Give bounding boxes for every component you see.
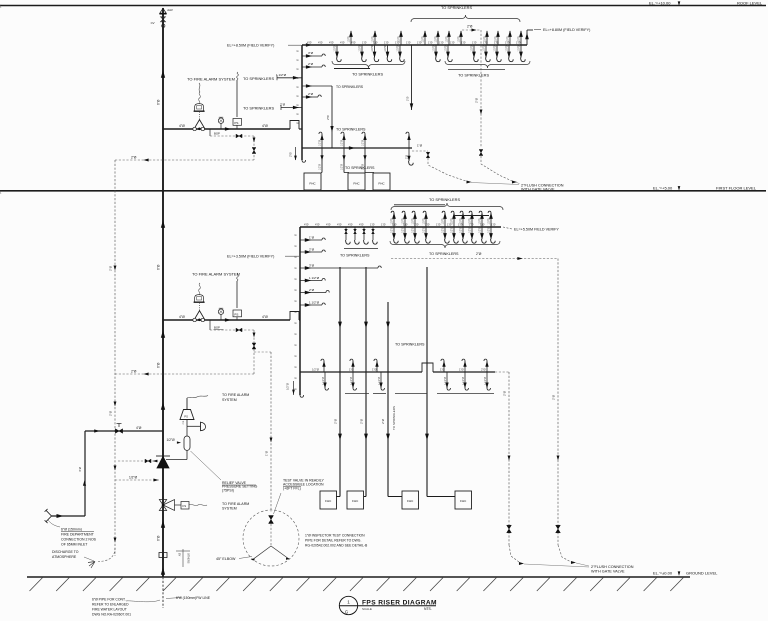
svg-text:2"Ø: 2"Ø [475, 97, 479, 103]
svg-text:1/2"Ø: 1/2"Ø [494, 45, 497, 51]
svg-text:1 1/2"Ø: 1 1/2"Ø [309, 276, 320, 280]
svg-text:1/2"Ø: 1/2"Ø [445, 45, 448, 51]
svg-text:1/2"Ø: 1/2"Ø [460, 218, 463, 224]
svg-text:1/2"Ø: 1/2"Ø [348, 36, 351, 42]
svg-text:2"Ø: 2"Ø [360, 418, 364, 424]
svg-text:45° ELBOW: 45° ELBOW [216, 557, 236, 561]
svg-text:1/2"Ø: 1/2"Ø [451, 227, 454, 233]
svg-text:Ø: Ø [296, 278, 298, 280]
svg-text:NTS.: NTS. [424, 607, 432, 611]
svg-text:6"Ø: 6"Ø [157, 264, 161, 270]
svg-text:1 1/2"Ø: 1 1/2"Ø [276, 73, 287, 77]
svg-text:4"Ø: 4"Ø [136, 426, 142, 430]
svg-text:ATMOSPHERE: ATMOSPHERE [52, 555, 77, 559]
svg-text:SYSTEM: SYSTEM [222, 398, 237, 402]
svg-text:1/2"Ø: 1/2"Ø [167, 438, 176, 442]
svg-text:2"Ø: 2"Ø [552, 394, 556, 400]
svg-text:Ø: Ø [298, 68, 300, 70]
svg-text:6"Ø (150mm)FW LINE: 6"Ø (150mm)FW LINE [176, 596, 211, 600]
svg-text:1/2"Ø: 1/2"Ø [391, 227, 394, 233]
svg-text:1"Ø: 1"Ø [384, 41, 388, 45]
svg-text:1"Ø: 1"Ø [372, 367, 377, 371]
svg-text:REFER TO ENLARGED: REFER TO ENLARGED [92, 603, 129, 607]
svg-text:G: G [345, 609, 348, 614]
svg-text:1/2"Ø: 1/2"Ø [341, 140, 344, 146]
svg-text:TO SPRINKLERS: TO SPRINKLERS [336, 85, 364, 89]
svg-text:Ø: Ø [296, 267, 298, 269]
svg-text:4"Ø: 4"Ø [262, 124, 268, 128]
svg-text:FHC: FHC [353, 182, 360, 186]
svg-text:FHC: FHC [378, 182, 385, 186]
svg-text:SCALE: SCALE [362, 607, 372, 611]
svg-text:TO SPRINKLERS: TO SPRINKLERS [392, 406, 396, 430]
svg-text:TO SPRINKLERS: TO SPRINKLERS [395, 343, 425, 347]
svg-text:CONNECTION 2 NOS: CONNECTION 2 NOS [61, 538, 97, 542]
svg-text:4"Ø: 4"Ø [351, 41, 355, 45]
svg-text:GROUND LEVEL: GROUND LEVEL [686, 571, 718, 576]
svg-text:Ø: Ø [298, 113, 300, 115]
svg-text:Ø: Ø [298, 104, 300, 106]
svg-text:6"Ø (150mm): 6"Ø (150mm) [61, 527, 82, 531]
svg-text:2"Ø: 2"Ø [308, 92, 314, 96]
svg-text:1/2"Ø: 1/2"Ø [488, 218, 491, 224]
svg-text:1 1/2"Ø: 1 1/2"Ø [484, 377, 487, 385]
svg-text:1"Ø: 1"Ø [472, 41, 476, 45]
svg-text:2"Ø: 2"Ø [476, 252, 482, 256]
svg-text:TO FIRE ALARM SYSTEM: TO FIRE ALARM SYSTEM [187, 77, 235, 82]
svg-text:Ø: Ø [298, 95, 300, 97]
svg-text:1/2"Ø: 1/2"Ø [412, 218, 415, 224]
svg-text:TO SPRINKLERS: TO SPRINKLERS [336, 128, 366, 132]
svg-text:1/2"Ø: 1/2"Ø [495, 36, 498, 42]
svg-text:1/2"Ø: 1/2"Ø [319, 164, 322, 170]
svg-text:1/2"Ø: 1/2"Ø [518, 36, 521, 42]
svg-text:1/2"Ø: 1/2"Ø [384, 45, 387, 51]
svg-text:1"Ø: 1"Ø [362, 41, 366, 45]
svg-text:Ø: Ø [298, 59, 300, 61]
svg-text:FIRST FLOOR LEVEL: FIRST FLOOR LEVEL [716, 185, 757, 190]
svg-text:TO SPRINKLERS: TO SPRINKLERS [352, 72, 383, 77]
svg-text:1"Ø: 1"Ø [349, 367, 354, 371]
svg-text:EL=+8.80M (FIELD VERIFY): EL=+8.80M (FIELD VERIFY) [543, 28, 590, 32]
svg-text:FHC: FHC [325, 499, 332, 503]
svg-text:ROOF LEVEL: ROOF LEVEL [737, 1, 763, 6]
svg-text:2"Ø: 2"Ø [334, 418, 338, 424]
svg-text:4"Ø: 4"Ø [179, 124, 185, 128]
svg-text:4"Ø: 4"Ø [340, 41, 344, 45]
svg-text:1/2"Ø: 1/2"Ø [483, 45, 486, 51]
svg-text:1/2"Ø: 1/2"Ø [446, 36, 449, 42]
svg-text:Ø: Ø [296, 388, 298, 390]
svg-text:1"Ø: 1"Ø [381, 223, 385, 227]
svg-text:EL=+3.50M (FIELD VERIFY): EL=+3.50M (FIELD VERIFY) [227, 254, 274, 258]
svg-text:(+6FT FFL): (+6FT FFL) [283, 487, 301, 491]
svg-text:TO FIRE ALARM: TO FIRE ALARM [222, 393, 249, 397]
svg-text:1/2"Ø: 1/2"Ø [359, 45, 362, 51]
svg-text:1/2"Ø: 1/2"Ø [286, 383, 290, 390]
svg-text:1/2"Ø: 1/2"Ø [423, 227, 426, 233]
svg-text:1/2"Ø: 1/2"Ø [471, 45, 474, 51]
svg-text:Ø: Ø [296, 234, 298, 236]
svg-text:Ø: Ø [298, 122, 300, 124]
svg-text:Ø: Ø [296, 289, 298, 291]
svg-text:4"Ø: 4"Ø [337, 223, 341, 227]
svg-text:2"Ø: 2"Ø [503, 390, 507, 396]
svg-text:Ø: Ø [296, 377, 298, 379]
svg-text:6"Ø: 6"Ø [157, 362, 161, 368]
svg-text:1"Ø: 1"Ø [265, 450, 269, 456]
svg-text:Ø: Ø [296, 300, 298, 302]
svg-text:4"Ø: 4"Ø [179, 315, 185, 319]
svg-text:1/2"Ø: 1/2"Ø [479, 227, 482, 233]
svg-text:Ø: Ø [296, 245, 298, 247]
svg-text:1/2"Ø: 1/2"Ø [397, 45, 400, 51]
svg-text:1/2"Ø: 1/2"Ø [518, 45, 521, 51]
svg-text:1/2"Ø: 1/2"Ø [479, 218, 482, 224]
svg-text:1/2"Ø: 1/2"Ø [435, 36, 438, 42]
svg-text:1/2"Ø: 1/2"Ø [391, 218, 394, 224]
svg-text:SYSTEM: SYSTEM [222, 507, 237, 511]
svg-text:CV: CV [151, 21, 155, 25]
svg-text:FPS RISER DIAGRAM: FPS RISER DIAGRAM [362, 599, 437, 606]
svg-text:2"Ø: 2"Ø [326, 114, 330, 120]
svg-text:2"Ø: 2"Ø [289, 151, 293, 157]
svg-text:4"Ø: 4"Ø [329, 41, 333, 45]
svg-text:FHC: FHC [309, 182, 316, 186]
svg-text:1/2"Ø: 1/2"Ø [442, 227, 445, 233]
svg-text:BOP: BOP [214, 326, 220, 330]
svg-text:4"Ø: 4"Ø [315, 223, 319, 227]
svg-text:PS: PS [234, 121, 238, 125]
svg-text:2"Ø: 2"Ø [381, 418, 385, 424]
svg-text:TO SPRINKLERS: TO SPRINKLERS [429, 197, 460, 202]
svg-text:FIRE WATER LAYOUT: FIRE WATER LAYOUT [92, 608, 127, 612]
svg-text:2"FLUSH CONNECTION: 2"FLUSH CONNECTION [591, 565, 634, 569]
svg-text:2"Ø: 2"Ø [481, 367, 486, 371]
svg-text:Ø: Ø [298, 86, 300, 88]
svg-text:1/2"Ø: 1/2"Ø [469, 227, 472, 233]
svg-text:2"Ø: 2"Ø [183, 421, 185, 425]
svg-text:Ø: Ø [296, 355, 298, 357]
svg-text:6"Ø: 6"Ø [157, 99, 161, 105]
svg-text:TO SPRINKLERS: TO SPRINKLERS [340, 253, 370, 257]
svg-text:1/2"Ø: 1/2"Ø [129, 475, 138, 479]
svg-text:1/2"Ø: 1/2"Ø [507, 36, 510, 42]
svg-text:1/2"Ø: 1/2"Ø [484, 36, 487, 42]
svg-text:Ø: Ø [298, 77, 300, 79]
svg-text:1/2"Ø: 1/2"Ø [458, 36, 461, 42]
svg-text:1"Ø: 1"Ø [440, 367, 445, 371]
svg-text:3"Ø: 3"Ø [308, 51, 314, 55]
svg-text:PIPE FOR DETAIL REFER TO DWG.: PIPE FOR DETAIL REFER TO DWG. [305, 539, 361, 543]
svg-text:3"Ø: 3"Ø [309, 263, 315, 267]
svg-text:1"Ø: 1"Ø [450, 41, 454, 45]
svg-text:PS: PS [234, 312, 238, 316]
svg-text:2"Ø: 2"Ø [131, 155, 137, 159]
svg-text:DWG NO.RA-020607.001: DWG NO.RA-020607.001 [92, 613, 131, 617]
svg-text:BY: BY [178, 553, 181, 557]
svg-text:BOP: BOP [214, 132, 220, 136]
svg-text:TO SPRINKLERS: TO SPRINKLERS [458, 73, 489, 78]
svg-text:2"Ø: 2"Ø [406, 155, 409, 159]
svg-text:(75PSI): (75PSI) [222, 488, 234, 492]
svg-text:1"Ø: 1"Ø [491, 223, 495, 227]
svg-text:2"Ø: 2"Ø [131, 369, 137, 373]
svg-text:1/2"Ø: 1/2"Ø [506, 45, 509, 51]
svg-text:1/2"Ø: 1/2"Ø [460, 227, 463, 233]
svg-text:1"Ø: 1"Ø [406, 41, 410, 45]
svg-text:2"Ø: 2"Ø [467, 24, 473, 28]
svg-text:2"Ø: 2"Ø [308, 62, 314, 66]
svg-text:1/2"Ø: 1/2"Ø [371, 45, 374, 51]
svg-text:FHC: FHC [460, 499, 467, 503]
svg-text:1 1/2"Ø: 1 1/2"Ø [444, 377, 447, 385]
svg-text:EL=+5.50M FIELD VERIFY: EL=+5.50M FIELD VERIFY [514, 228, 559, 232]
svg-text:1/2"Ø: 1/2"Ø [422, 36, 425, 42]
svg-text:EL.'=±0.00: EL.'=±0.00 [653, 571, 673, 576]
svg-text:4"Ø: 4"Ø [304, 223, 308, 227]
svg-text:EL.'=+10.00: EL.'=+10.00 [649, 1, 671, 6]
svg-text:1 1/2"Ø: 1 1/2"Ø [322, 377, 325, 385]
svg-text:FHC: FHC [407, 499, 414, 503]
svg-text:WITH GATE VALVE: WITH GATE VALVE [521, 187, 555, 191]
svg-text:TO SPRINKLERS: TO SPRINKLERS [345, 166, 375, 170]
svg-text:EL.'=+5.00: EL.'=+5.00 [653, 185, 673, 190]
svg-text:2"Ø: 2"Ø [309, 288, 315, 292]
svg-text:FS: FS [183, 504, 187, 508]
svg-text:TO SPRINKLERS: TO SPRINKLERS [243, 76, 274, 81]
svg-text:1/2"Ø: 1/2"Ø [372, 36, 375, 42]
svg-text:1 1/2"Ø: 1 1/2"Ø [309, 300, 320, 304]
svg-text:TO SPRINKLERS: TO SPRINKLERS [243, 105, 274, 110]
svg-text:RG-020542.002.002 AND SEE DETA: RG-020542.002.002 AND SEE DETAIL-B [305, 544, 368, 548]
svg-text:1 1/2"Ø: 1 1/2"Ø [378, 377, 381, 385]
svg-text:Ø: Ø [296, 344, 298, 346]
svg-text:1"Ø: 1"Ø [461, 41, 465, 45]
svg-text:1"Ø: 1"Ø [428, 41, 432, 45]
svg-text:FHC: FHC [352, 499, 359, 503]
svg-text:1"Ø INSPECTOR TEST CONNECTION: 1"Ø INSPECTOR TEST CONNECTION [305, 534, 365, 538]
svg-text:1/2"Ø: 1/2"Ø [451, 218, 454, 224]
svg-text:TO SPRINKLERS: TO SPRINKLERS [441, 5, 472, 10]
svg-text:1"Ø: 1"Ø [417, 144, 423, 148]
svg-text:1/2"Ø: 1/2"Ø [402, 227, 405, 233]
svg-text:Ø: Ø [296, 333, 298, 335]
svg-text:Ø: Ø [298, 50, 300, 52]
svg-text:1/2"Ø: 1/2"Ø [402, 218, 405, 224]
svg-text:EL=+8.50M (FIELD VERIFY): EL=+8.50M (FIELD VERIFY) [227, 44, 274, 48]
svg-text:2"Ø: 2"Ø [309, 247, 315, 251]
svg-text:1: 1 [347, 599, 350, 604]
svg-text:1/2"Ø: 1/2"Ø [319, 140, 322, 146]
svg-text:TO SPRINKLERS: TO SPRINKLERS [429, 252, 459, 256]
svg-text:4"Ø: 4"Ø [326, 223, 330, 227]
svg-text:TO FIRE ALARM: TO FIRE ALARM [222, 502, 249, 506]
svg-text:4"Ø: 4"Ø [307, 41, 311, 45]
svg-text:1/2"Ø: 1/2"Ø [433, 45, 436, 51]
svg-text:1/2"Ø: 1/2"Ø [312, 367, 319, 371]
svg-text:1 1/2"Ø: 1 1/2"Ø [350, 377, 353, 385]
svg-text:4"Ø: 4"Ø [78, 466, 82, 472]
svg-text:4"Ø: 4"Ø [359, 223, 363, 227]
svg-text:OTHERS: OTHERS [187, 553, 190, 564]
svg-text:6"Ø PIPE FOR CONT.: 6"Ø PIPE FOR CONT. [92, 598, 126, 602]
svg-text:2"Ø: 2"Ø [406, 97, 410, 101]
svg-text:TO FIRE ALARM SYSTEM: TO FIRE ALARM SYSTEM [192, 272, 240, 277]
svg-text:1"Ø: 1"Ø [309, 235, 315, 239]
svg-text:PS: PS [184, 415, 188, 419]
svg-text:1/2"Ø: 1/2"Ø [488, 227, 491, 233]
svg-text:Ø: Ø [296, 366, 298, 368]
svg-text:FIRE DEPARTMENT: FIRE DEPARTMENT [61, 533, 95, 537]
svg-text:1"Ø: 1"Ø [370, 223, 374, 227]
svg-text:4"Ø: 4"Ø [348, 223, 352, 227]
svg-text:1/2"Ø: 1/2"Ø [341, 164, 344, 170]
svg-text:1/2"Ø: 1/2"Ø [412, 227, 415, 233]
svg-text:1/2"Ø: 1/2"Ø [334, 45, 337, 51]
svg-text:1/2"Ø: 1/2"Ø [398, 36, 401, 42]
svg-text:OF 65MM INLET: OF 65MM INLET [61, 543, 88, 547]
svg-text:2"Ø: 2"Ø [109, 265, 113, 271]
svg-text:1/2"Ø: 1/2"Ø [442, 218, 445, 224]
svg-text:1/2"Ø: 1/2"Ø [423, 218, 426, 224]
svg-text:AAV: AAV [167, 8, 173, 12]
svg-text:1/2"Ø: 1/2"Ø [362, 140, 365, 146]
svg-text:WITH GATE VALVE: WITH GATE VALVE [591, 569, 625, 573]
svg-text:4"Ø: 4"Ø [262, 315, 268, 319]
svg-text:2"Ø: 2"Ø [109, 410, 113, 416]
svg-text:4"Ø: 4"Ø [318, 41, 322, 45]
svg-text:Ø: Ø [296, 322, 298, 324]
svg-text:DISCHARGE TO: DISCHARGE TO [52, 550, 79, 554]
svg-text:6"Ø: 6"Ø [157, 535, 161, 541]
svg-text:1"Ø: 1"Ø [459, 367, 464, 371]
svg-text:1 1/2"Ø: 1 1/2"Ø [462, 377, 465, 385]
svg-text:1"Ø: 1"Ø [436, 223, 440, 227]
svg-text:1/2"Ø: 1/2"Ø [469, 218, 472, 224]
svg-text:1"Ø: 1"Ø [439, 41, 443, 45]
